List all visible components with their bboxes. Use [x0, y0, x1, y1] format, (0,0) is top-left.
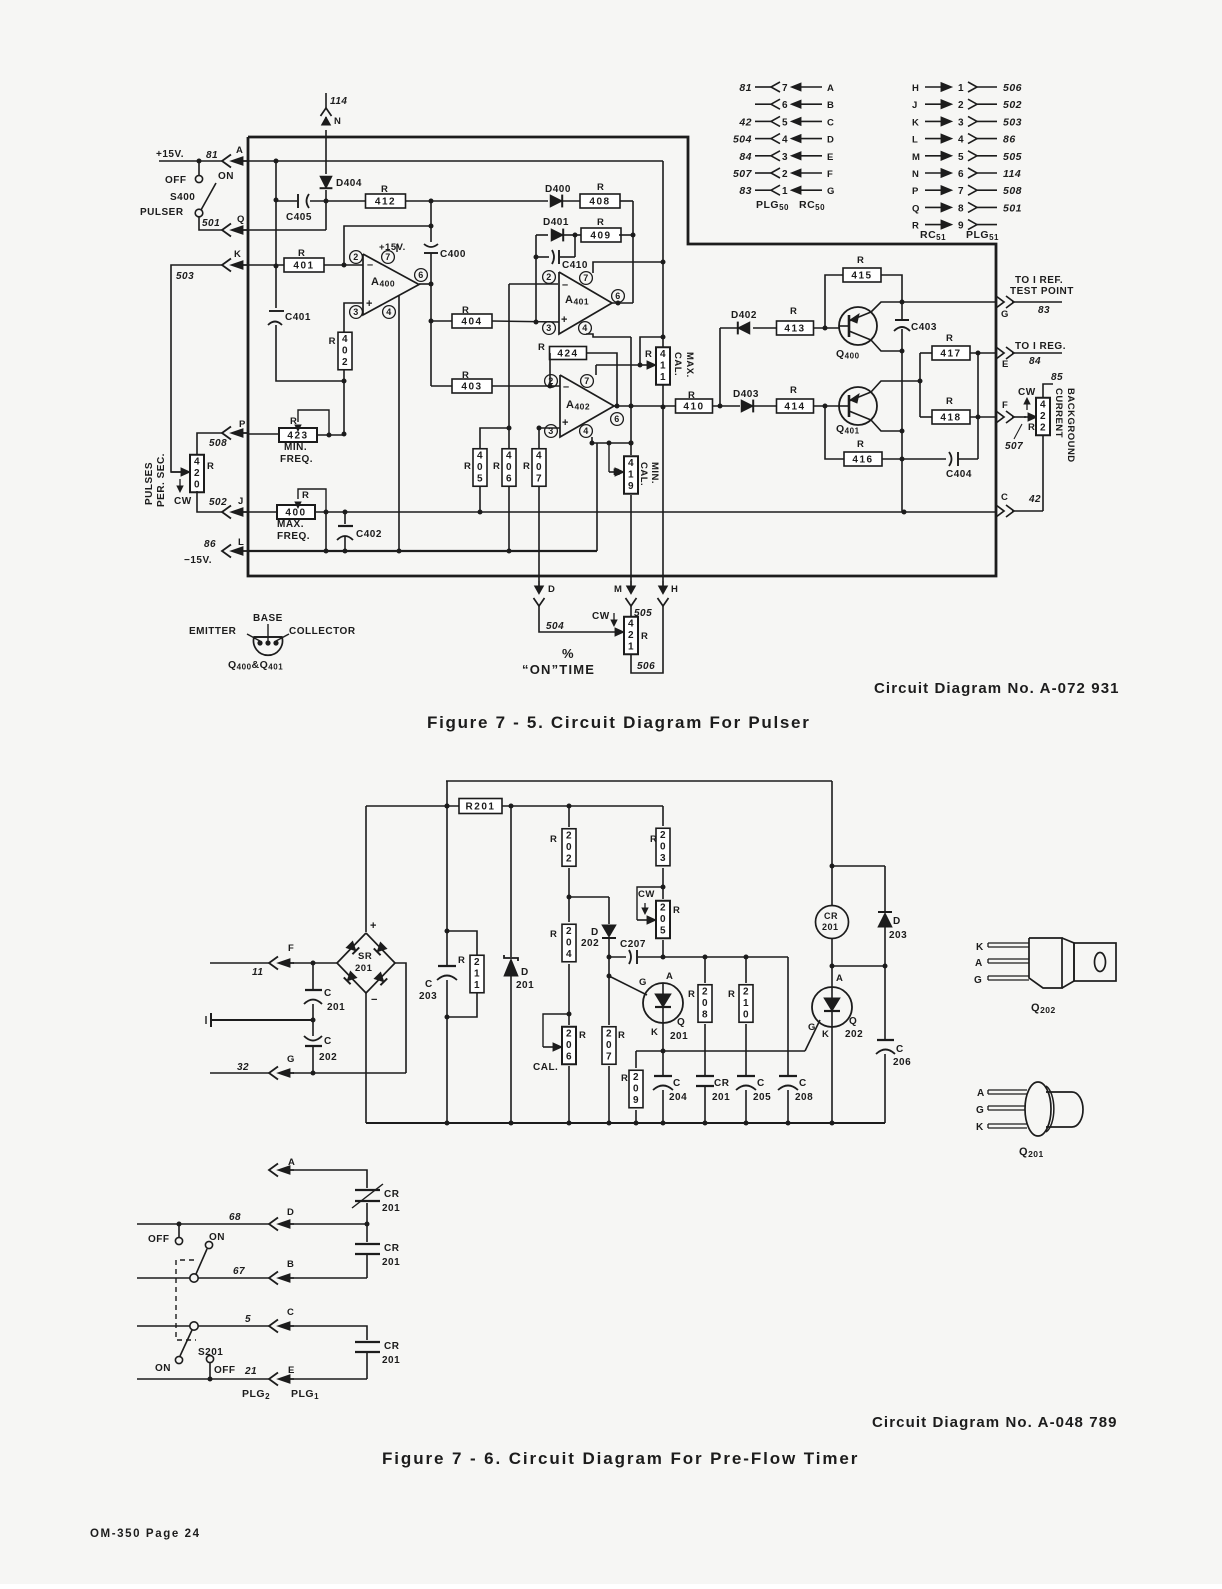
wire R407 bottom through box to D connector [538, 486, 540, 581]
svg-text:0: 0 [660, 914, 666, 925]
svg-text:K: K [976, 1122, 984, 1133]
svg-text:4: 4 [958, 135, 964, 146]
wire R410 to D403 with D402 branch [712, 405, 740, 407]
svg-text:2: 2 [958, 100, 964, 111]
svg-text:P: P [912, 186, 919, 197]
A401 pin 3 circle [543, 322, 556, 335]
svg-text:4: 4 [477, 450, 483, 461]
wire C207 line y=957 [607, 955, 612, 960]
A400 pin 3 circle [350, 306, 363, 319]
svg-text:5: 5 [477, 473, 483, 484]
svg-text:84: 84 [739, 151, 752, 163]
svg-text:R: R [641, 631, 648, 642]
connector pin D of PLG1 [269, 1218, 278, 1231]
wire A line to CR201 contact 1 [294, 1170, 367, 1188]
wire 503 loop from K to R420 wiper [171, 265, 222, 472]
connector pin M below box [630, 581, 632, 590]
wire pole to connector Q [199, 217, 222, 230]
potentiometer R400 MAX FREQ [277, 505, 315, 519]
zener diode D201 [510, 806, 512, 957]
svg-text:503: 503 [176, 271, 194, 282]
svg-text:502: 502 [1003, 99, 1022, 111]
svg-text:6: 6 [782, 100, 788, 111]
svg-text:508: 508 [209, 438, 227, 449]
svg-text:4: 4 [782, 135, 788, 146]
svg-text:R: R [329, 336, 336, 347]
diode D202 [608, 897, 610, 924]
R411 top/wiper tie loop [640, 337, 663, 365]
wire R420 bottom to J [197, 491, 222, 512]
svg-text:+: + [562, 417, 569, 429]
svg-text:206: 206 [893, 1057, 911, 1068]
svg-text:508: 508 [1003, 185, 1022, 197]
svg-text:68: 68 [229, 1212, 241, 1223]
wire top rail of timer [446, 780, 832, 782]
capacitor C402 [344, 512, 346, 524]
svg-text:6: 6 [958, 169, 964, 180]
svg-text:A402: A402 [566, 399, 590, 412]
svg-text:0: 0 [660, 841, 666, 852]
connector pin K and net 503 [222, 259, 231, 272]
svg-text:2: 2 [566, 830, 572, 841]
svg-text:202: 202 [581, 938, 599, 949]
wire D402 branch column x=720 [719, 328, 721, 406]
svg-text:7: 7 [385, 252, 391, 262]
svg-text:416: 416 [852, 455, 873, 466]
svg-text:N: N [912, 169, 919, 180]
wire R203 column from rail corner [662, 806, 664, 826]
connector pin D below box [538, 581, 540, 590]
A402 pin 7 circle [581, 375, 594, 388]
svg-text:EMITTER: EMITTER [189, 626, 237, 637]
wire R415 left to base line of Q400 [825, 275, 843, 328]
svg-text:42: 42 [738, 116, 752, 128]
wire R400 right-end down to -15V rail [325, 512, 327, 551]
svg-text:FREQ.: FREQ. [277, 531, 310, 542]
op-amp A402 triangle [560, 375, 614, 437]
svg-text:D404: D404 [336, 178, 362, 189]
wire feedback column x=633 (R408/R409 to A401 output) [632, 201, 634, 303]
svg-text:4: 4 [506, 450, 512, 461]
svg-text:D: D [287, 1207, 294, 1218]
svg-text:7: 7 [584, 376, 590, 386]
svg-text:502: 502 [209, 497, 227, 508]
connector pin N (net 114) arrow up [321, 108, 332, 116]
svg-text:C402: C402 [356, 529, 382, 540]
transistor Q401 [839, 387, 877, 425]
svg-text:C404: C404 [946, 469, 972, 480]
svg-text:PULSES: PULSES [144, 462, 155, 505]
svg-text:R: R [621, 1073, 628, 1084]
svg-text:Q: Q [237, 214, 245, 225]
svg-text:3: 3 [782, 152, 788, 163]
svg-text:9: 9 [628, 481, 634, 492]
svg-text:CURRENT: CURRENT [1053, 388, 1064, 438]
wire C207 line to C208 column [663, 956, 788, 958]
A401 pin 7 circle [580, 272, 593, 285]
svg-text:+15V.: +15V. [379, 242, 406, 253]
svg-text:G: G [287, 1054, 295, 1065]
wire Q202 cathode to bottom rail [831, 1027, 833, 1123]
wire A402 output line to R410 [614, 405, 676, 407]
svg-text:R: R [302, 490, 309, 501]
svg-text:9: 9 [958, 221, 964, 232]
svg-text:83: 83 [1038, 305, 1050, 316]
wire R202 column top [568, 806, 570, 827]
connector pin F output [996, 411, 1004, 423]
capacitor C206 [877, 1039, 894, 1041]
svg-text:A: A [827, 83, 834, 94]
svg-text:G: G [1001, 309, 1009, 320]
svg-text:0: 0 [477, 462, 483, 473]
svg-text:A400: A400 [371, 276, 395, 289]
svg-text:Q: Q [912, 203, 920, 214]
svg-text:7: 7 [583, 273, 589, 283]
svg-text:2: 2 [782, 169, 788, 180]
wire D202 branch line y=897 [569, 896, 609, 898]
svg-text:8: 8 [702, 1009, 708, 1020]
svg-text:4: 4 [583, 426, 589, 436]
svg-text:5: 5 [958, 152, 964, 163]
wire R423 to x=344 column [317, 434, 344, 436]
svg-text:507: 507 [1005, 441, 1023, 452]
wire y=201 line C405-R412-D400-R408 [276, 200, 297, 202]
SCR Q202 [812, 987, 852, 1027]
wire A402 pin7 stub to +15V wiper line [595, 365, 597, 375]
svg-text:205: 205 [753, 1092, 771, 1103]
svg-text:0: 0 [566, 1040, 572, 1051]
svg-text:A401: A401 [565, 294, 589, 307]
relay contact CR201 no.2 [366, 1224, 368, 1242]
svg-text:E: E [1002, 359, 1009, 370]
wire R419 bottom through box to M connector [630, 495, 632, 581]
svg-text:D403: D403 [733, 389, 759, 400]
svg-text:D402: D402 [731, 310, 757, 321]
svg-text:7: 7 [606, 1051, 612, 1062]
svg-text:C: C [757, 1078, 765, 1089]
svg-text:11: 11 [252, 967, 263, 978]
svg-text:R: R [912, 221, 919, 232]
svg-text:Figure 7 - 5. Circuit Diagram: Figure 7 - 5. Circuit Diagram For Pulser [427, 713, 811, 732]
svg-text:2: 2 [566, 853, 572, 864]
svg-text:M: M [614, 584, 622, 595]
PLG50 pin 6 row: net - to B [755, 103, 771, 105]
wire R414 to Q401 base [813, 405, 839, 407]
wire C400/A400-output/R404/R403 column x=431 [430, 253, 432, 386]
capacitor C410 [536, 256, 549, 258]
svg-text:1: 1 [474, 980, 480, 991]
svg-text:CW: CW [592, 611, 610, 622]
wire R411 bottom through box to H connector [662, 384, 664, 581]
wire K line into box to R401 [247, 264, 285, 266]
capacitor C204 [662, 1051, 664, 1075]
svg-text:R: R [728, 989, 735, 1000]
svg-text:−15V.: −15V. [184, 555, 212, 566]
svg-text:Q201: Q201 [1019, 1146, 1044, 1159]
svg-text:32: 32 [237, 1062, 249, 1073]
svg-text:2: 2 [566, 1028, 572, 1039]
wire 501/Q line inside box [247, 229, 326, 231]
svg-text:Circuit Diagram No. A-048 789: Circuit Diagram No. A-048 789 [872, 1414, 1118, 1431]
switch S201 lower pole [190, 1322, 198, 1330]
capacitor C401 [269, 310, 284, 312]
svg-text:F: F [1002, 400, 1008, 411]
wire R203 to R205 with wiper tie [662, 868, 664, 899]
svg-text:404: 404 [461, 317, 482, 328]
wire -15V rail inside box [247, 550, 597, 552]
svg-text:A: A [236, 145, 243, 156]
svg-text:D: D [521, 967, 529, 978]
svg-text:C207: C207 [620, 939, 646, 950]
package Q201 body [1025, 1082, 1051, 1136]
svg-text:P: P [239, 419, 246, 430]
relay contact CR201 (in timer) [696, 1075, 714, 1077]
wire R401 to A400 pin2, feedback tap x=344 [324, 264, 363, 266]
svg-text:400: 400 [285, 508, 306, 519]
svg-text:B: B [827, 100, 834, 111]
svg-text:R: R [790, 306, 797, 317]
wire P to R420 top [197, 433, 222, 456]
svg-text:410: 410 [683, 402, 704, 413]
svg-text:21: 21 [244, 1366, 257, 1377]
svg-text:R: R [618, 1030, 625, 1041]
svg-text:201: 201 [822, 922, 839, 932]
svg-text:C405: C405 [286, 212, 312, 223]
svg-text:R: R [597, 217, 604, 228]
svg-text:7: 7 [958, 186, 964, 197]
svg-text:F: F [288, 943, 294, 954]
svg-text:2: 2 [546, 272, 552, 282]
svg-text:C: C [324, 988, 332, 999]
svg-text:S400: S400 [170, 192, 195, 203]
wire node-A column x=536 (D401/C410 to A401 pin3) [535, 235, 537, 322]
wire Q201 gate to R207 column [609, 976, 647, 995]
svg-text:114: 114 [330, 96, 347, 107]
svg-text:C: C [1001, 492, 1008, 503]
svg-text:H: H [671, 584, 678, 595]
wire -15V up to A402 pin4 [596, 443, 598, 551]
switch S201 lower OFF contact [206, 1355, 213, 1362]
svg-text:6: 6 [418, 270, 424, 280]
svg-text:504: 504 [546, 621, 564, 632]
switch S201 lower ON contact [175, 1356, 182, 1363]
svg-text:2: 2 [633, 1072, 639, 1083]
wire R402/C401 junction down to R423 line [343, 381, 345, 434]
svg-text:4: 4 [1040, 399, 1046, 410]
diode D203 [878, 911, 892, 913]
svg-text:R: R [688, 989, 695, 1000]
wire emitter rail column x=902 [901, 302, 903, 320]
svg-text:2: 2 [1040, 422, 1046, 433]
capacitor C202 [304, 1036, 322, 1041]
svg-text:L: L [912, 135, 918, 146]
svg-text:84: 84 [1029, 356, 1041, 367]
svg-text:D: D [548, 584, 555, 595]
wire R417/R418 left column x=920 [919, 353, 921, 417]
svg-text:R: R [579, 1030, 586, 1041]
svg-text:R: R [1028, 422, 1035, 433]
wire A401 pin7 +15V line [593, 262, 663, 273]
wire P line from box edge to R423 [247, 433, 279, 435]
svg-text:3: 3 [546, 323, 552, 333]
svg-text:CW: CW [174, 496, 192, 507]
svg-text:C401: C401 [285, 312, 311, 323]
svg-text:+: + [561, 314, 568, 326]
capacitor C205 [745, 1024, 747, 1075]
wire C line net 5 [137, 1325, 190, 1327]
svg-text:R: R [790, 385, 797, 396]
R420 CW arrow [179, 479, 181, 488]
wire R421 bottom to H, net 506 [631, 606, 663, 673]
svg-text:1: 1 [660, 360, 666, 371]
svg-text:403: 403 [461, 382, 482, 393]
svg-text:K: K [976, 942, 984, 953]
potentiometer R205 with CW loop [656, 901, 670, 939]
svg-text:D: D [893, 916, 901, 927]
switch S400 OFF contact [198, 161, 200, 175]
svg-text:+: + [370, 920, 377, 932]
R423 wiper arrow and loop [297, 425, 299, 429]
svg-text:C400: C400 [440, 249, 466, 260]
svg-text:86: 86 [1003, 134, 1016, 146]
svg-text:2: 2 [743, 986, 749, 997]
wire R209 from K line [635, 1051, 637, 1068]
svg-text:208: 208 [795, 1092, 813, 1103]
wire R405 bottom to 502 line [479, 486, 481, 512]
wire R204 bottom to R206 junction [568, 964, 570, 1025]
svg-text:R: R [464, 461, 471, 472]
svg-text:0: 0 [702, 998, 708, 1009]
svg-text:CR: CR [714, 1078, 730, 1089]
svg-text:3: 3 [958, 117, 964, 128]
wire K line y=1051 [636, 1050, 805, 1052]
svg-text:R: R [458, 955, 465, 966]
svg-text:E: E [827, 152, 834, 163]
svg-text:R: R [493, 461, 500, 472]
svg-text:8: 8 [958, 203, 964, 214]
pulser enclosure box outline [248, 137, 996, 576]
svg-text:202: 202 [845, 1029, 863, 1040]
wire A402 pin4/R419-wiper line y=443 [592, 437, 631, 443]
wire C line to CR201 contact 3 [294, 1326, 367, 1340]
svg-text:–: – [562, 279, 569, 291]
capacitor C400 [430, 201, 432, 242]
wire D401/R409 line y=235 [536, 234, 548, 236]
A400 pin 2 circle [350, 251, 363, 264]
wire R403 to A402 pin2 [492, 385, 560, 387]
svg-text:CW: CW [638, 889, 655, 900]
svg-text:1: 1 [628, 469, 634, 480]
svg-text:0: 0 [633, 1083, 639, 1094]
svg-text:C: C [827, 117, 834, 128]
wire F line to bridge left vertex [293, 962, 337, 964]
wire R207 column [608, 957, 610, 1025]
svg-text:2: 2 [353, 252, 359, 262]
svg-text:0: 0 [536, 462, 542, 473]
svg-text:PULSER: PULSER [140, 207, 184, 218]
diode D404 [320, 176, 332, 188]
svg-text:MAX.: MAX. [684, 352, 695, 378]
wire E/F right column x=978 [977, 353, 979, 417]
svg-text:6: 6 [614, 414, 620, 424]
capacitor C405 [297, 194, 299, 208]
wire C405 feed column x=276 [275, 161, 277, 308]
SCR Q201 [643, 983, 683, 1023]
wire J/502 line into box [247, 511, 277, 513]
svg-text:7: 7 [536, 473, 542, 484]
connector pin C of PLG1 [269, 1320, 278, 1333]
svg-text:R: R [538, 342, 545, 353]
connector pin E of PLG1 [269, 1373, 278, 1386]
svg-text:2: 2 [548, 376, 554, 386]
resistor R201 [459, 799, 502, 814]
wire +15V wiper line to R411 [596, 364, 640, 366]
svg-text:R: R [207, 461, 214, 472]
svg-text:4: 4 [582, 323, 588, 333]
wire A402 pin3 line [539, 427, 560, 429]
wire branch to D203 column [832, 865, 885, 867]
svg-text:C403: C403 [911, 322, 937, 333]
wire G line to bridge right vertex loop [293, 1072, 406, 1074]
relay coil CR201 [816, 906, 849, 939]
relay contact CR201 no.1 with slash [355, 1189, 380, 1191]
svg-text:503: 503 [1003, 116, 1022, 128]
wire R416 right to emitter rail [882, 458, 902, 460]
connector pin Q [222, 224, 231, 237]
svg-text:C: C [425, 979, 433, 990]
A400 pin 4 circle [383, 306, 396, 319]
A402 pin 2 circle [545, 375, 558, 388]
svg-text:BASE: BASE [253, 613, 283, 624]
wire A401 pin4 to x=631 column [586, 334, 631, 337]
svg-text:201: 201 [712, 1092, 730, 1103]
svg-text:Q: Q [849, 1016, 857, 1027]
A400 pin 6 circle [415, 269, 428, 282]
svg-text:1: 1 [782, 186, 788, 197]
svg-text:L: L [238, 537, 244, 548]
svg-text:S201: S201 [198, 1347, 223, 1358]
svg-text:CAL.: CAL. [672, 352, 683, 376]
capacitor C208 [779, 1075, 797, 1077]
svg-text:1: 1 [958, 83, 964, 94]
connector pin B of PLG1 [269, 1272, 278, 1285]
wire Q202 gate diagonal from K line [805, 1020, 820, 1051]
svg-text:COLLECTOR: COLLECTOR [289, 626, 356, 637]
connector pin E output TO I REG [996, 347, 1004, 359]
svg-text:MIN.: MIN. [649, 462, 660, 484]
svg-text:2: 2 [566, 926, 572, 937]
wire R404 to A401 pin3 with node-A junction [492, 321, 559, 322]
connector pin A [222, 155, 231, 168]
svg-text:BACKGROUND: BACKGROUND [1065, 388, 1076, 463]
svg-text:1: 1 [660, 372, 666, 383]
svg-text:4: 4 [342, 334, 348, 345]
svg-text:TO I REF.: TO I REF. [1015, 275, 1063, 286]
svg-text:203: 203 [889, 930, 907, 941]
wire bottom rail of timer [366, 1122, 885, 1124]
svg-text:4: 4 [628, 618, 634, 629]
wire R417 right to E line [970, 352, 996, 354]
svg-text:67: 67 [233, 1266, 245, 1277]
svg-text:507: 507 [733, 168, 753, 180]
wire R208 bottom to CR201 contact [704, 1024, 706, 1075]
svg-text:2: 2 [702, 986, 708, 997]
capacitor C207 [629, 950, 631, 964]
connector pin H below box [662, 581, 664, 590]
wire R405 top loop to x=509 [480, 428, 509, 449]
svg-text:–: – [563, 381, 570, 393]
wire bridge minus to bottom rail [365, 993, 367, 1123]
